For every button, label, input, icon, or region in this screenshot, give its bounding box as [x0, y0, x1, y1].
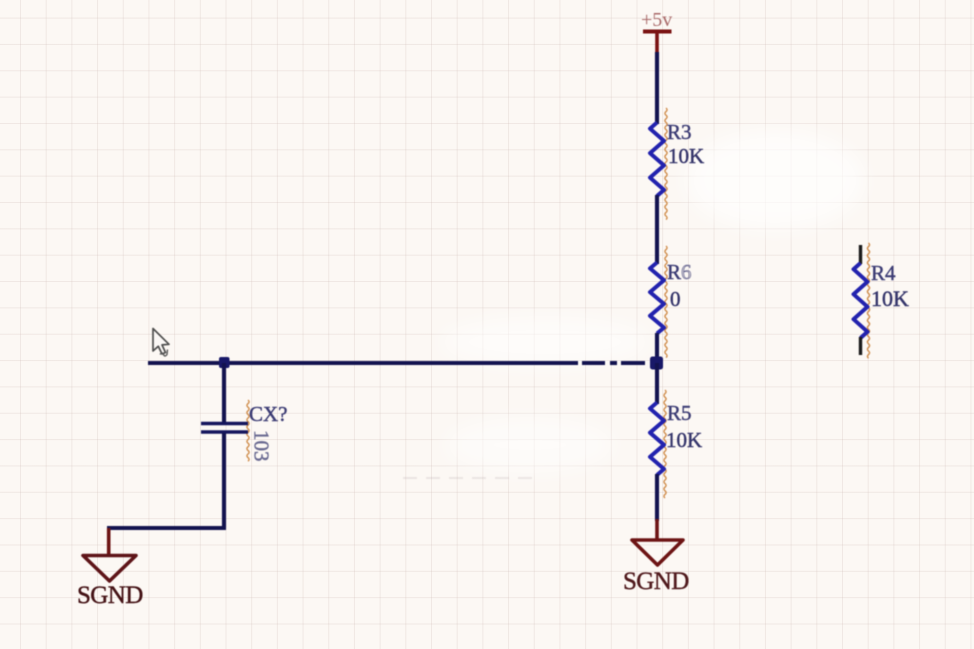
resistor R4 [854, 263, 868, 338]
svg-text:R4: R4 [871, 261, 896, 285]
svg-text:R6: R6 [667, 260, 692, 284]
mouse cursor [153, 329, 169, 357]
wire corner horizontal [107, 526, 226, 530]
soft video smudges [440, 130, 865, 473]
resistor R6 [650, 263, 664, 334]
capacitor CX? top plate [201, 422, 248, 426]
error squiggle CX [247, 400, 249, 461]
svg-text:10K: 10K [871, 286, 909, 311]
error squiggle R4 [867, 243, 869, 358]
svg-text:+5v: +5v [641, 9, 672, 31]
wire R5 to ground (red part) [655, 519, 659, 541]
svg-text:R3: R3 [667, 120, 692, 144]
junction right (at R column) [650, 357, 663, 370]
svg-text:10K: 10K [668, 144, 704, 168]
error squiggle R6 [665, 246, 667, 358]
resistor R3 [650, 123, 664, 197]
ghost dashed artifact [403, 477, 540, 479]
svg-text:103: 103 [250, 430, 274, 462]
resistor R5 [650, 403, 664, 476]
wire stub to left ground (red) [107, 528, 111, 556]
svg-text:10K: 10K [666, 428, 702, 452]
svg-text:0: 0 [670, 287, 681, 311]
error squiggle R3 [665, 108, 667, 220]
wire capacitor to corner [222, 433, 226, 528]
resistor R4 top pin [859, 245, 862, 264]
wire +5v to R3 [655, 52, 659, 124]
wire R6 to junction [655, 333, 659, 363]
wire horizontal main (solid part) [148, 361, 578, 365]
wire R5 to ground (blue part) [655, 474, 659, 521]
svg-text:SGND: SGND [77, 582, 143, 609]
wire junction to R5 [655, 363, 659, 404]
ground SGND right triangle [632, 540, 683, 565]
error squiggle R5 [664, 390, 666, 498]
power +5v bar symbol [643, 30, 672, 34]
capacitor CX? bottom plate [201, 430, 248, 434]
wire R3 to R6 [655, 195, 659, 264]
junction left (at cap column) [219, 357, 230, 368]
resistor R4 bottom pin [859, 337, 862, 355]
wire horizontal dashes [582, 361, 605, 365]
wire junction to capacitor [222, 363, 226, 422]
svg-text:SGND: SGND [623, 568, 689, 595]
wire +5v red stub [655, 33, 659, 53]
svg-text:R5: R5 [667, 401, 692, 425]
ground SGND left triangle [83, 556, 136, 582]
svg-text:CX?: CX? [249, 402, 288, 426]
